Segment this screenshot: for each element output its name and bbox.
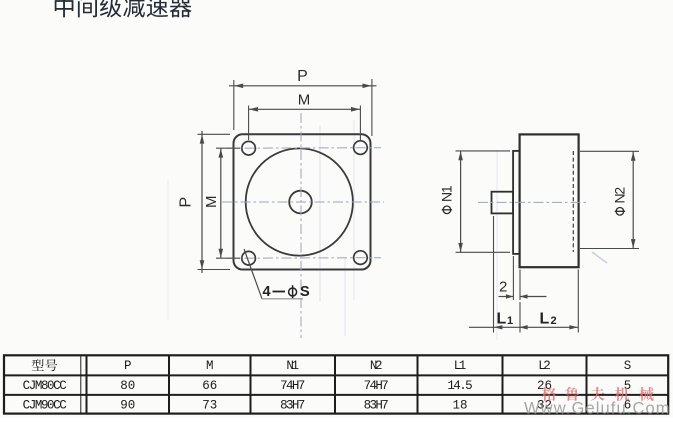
table column line x=335 bbox=[334, 355, 336, 413]
svg-text:73: 73 bbox=[202, 399, 217, 413]
svg-text:P: P bbox=[124, 359, 132, 373]
dim phiN1 line bbox=[460, 151, 462, 252]
svg-text:M: M bbox=[298, 92, 311, 109]
watermark char 械 bbox=[639, 387, 653, 401]
svg-text:2: 2 bbox=[499, 279, 507, 296]
svg-text:L: L bbox=[540, 311, 550, 328]
front view vertical centerline bbox=[300, 113, 302, 338]
table column ghost line bbox=[80, 355, 82, 413]
svg-text:4: 4 bbox=[263, 284, 271, 300]
title char 级 bbox=[100, 0, 122, 17]
watermark char 格 bbox=[542, 387, 556, 401]
dim P left extension lines bbox=[198, 133, 231, 135]
title char 减 bbox=[123, 0, 145, 17]
faint scan gridline bbox=[353, 120, 355, 300]
front view center bore circle bbox=[289, 191, 312, 214]
svg-text:Www.Gelufu.Com: Www.Gelufu.Com bbox=[524, 399, 670, 417]
svg-text:L: L bbox=[497, 311, 507, 328]
bolt row centerline top bbox=[226, 147, 381, 150]
dim M left line bbox=[220, 148, 222, 258]
dim L1 L2 line bbox=[469, 326, 578, 328]
table row separator 2 bbox=[4, 394, 668, 396]
dim P left line bbox=[201, 131, 203, 273]
title char 间 bbox=[78, 0, 97, 17]
svg-text:83H7: 83H7 bbox=[280, 399, 305, 413]
svg-text:5: 5 bbox=[624, 379, 632, 393]
dim P top line bbox=[229, 85, 377, 87]
svg-text:N1: N1 bbox=[286, 359, 299, 373]
svg-text:74H7: 74H7 bbox=[364, 379, 389, 393]
dim M left extension lines bbox=[216, 147, 240, 149]
svg-text:90: 90 bbox=[120, 399, 135, 413]
svg-text:N2: N2 bbox=[370, 359, 383, 373]
front view pilot circle bbox=[246, 148, 353, 255]
table column line x=250.5 bbox=[250, 355, 252, 413]
svg-text:83H7: 83H7 bbox=[364, 399, 389, 413]
side view flange plate bbox=[513, 151, 520, 254]
dim M top line bbox=[249, 108, 361, 110]
faint scan gridline bbox=[319, 125, 321, 302]
table header 型号 bbox=[32, 359, 44, 371]
dim phiN2 line bbox=[632, 151, 634, 248]
svg-text:N2: N2 bbox=[612, 187, 628, 204]
table column line x=417.5 bbox=[417, 355, 419, 413]
faint scan gridline bbox=[167, 180, 169, 320]
dim L1 L2 extension lines bbox=[493, 216, 495, 333]
table outer border bbox=[4, 355, 668, 413]
faint scan gridline bbox=[344, 258, 346, 336]
dim phiN2 label bbox=[612, 187, 628, 216]
title char 中 bbox=[55, 0, 74, 17]
side view horizontal centerline bbox=[478, 201, 589, 203]
side view body rectangle bbox=[520, 134, 579, 267]
leader line 4-phiS bbox=[244, 249, 262, 299]
title char 速 bbox=[147, 0, 168, 17]
svg-text:80: 80 bbox=[120, 379, 135, 393]
bolt hole top-right bbox=[354, 141, 368, 155]
bolt row centerline bottom bbox=[226, 257, 381, 260]
scan crease diagonal bbox=[592, 252, 607, 263]
bolt hole top-left bbox=[242, 141, 256, 155]
dim phiN1 label bbox=[439, 185, 455, 214]
dim 2 extension lines bbox=[512, 256, 514, 300]
svg-text:14.5: 14.5 bbox=[447, 379, 472, 393]
bolt hole bottom-left bbox=[242, 251, 256, 265]
side view shaft stub bbox=[492, 192, 514, 214]
svg-text:1: 1 bbox=[507, 315, 513, 327]
front view horizontal centerline bbox=[222, 201, 384, 203]
svg-text:L1: L1 bbox=[454, 359, 467, 373]
bolt hole bottom-right bbox=[354, 251, 368, 265]
svg-text:M: M bbox=[206, 359, 214, 373]
phi symbol of 4-phiS bbox=[289, 288, 297, 296]
svg-text:M: M bbox=[203, 196, 220, 209]
table row separator 1 bbox=[4, 374, 668, 376]
svg-text:66: 66 bbox=[202, 379, 217, 393]
svg-text:P: P bbox=[178, 197, 195, 208]
leader underline 4-phiS bbox=[262, 298, 304, 300]
svg-text:CJM80CC: CJM80CC bbox=[23, 379, 67, 393]
svg-text:2: 2 bbox=[551, 315, 557, 327]
table column line x=86.5 bbox=[86, 355, 88, 413]
svg-text:CJM90CC: CJM90CC bbox=[23, 399, 67, 413]
watermark char 机 bbox=[615, 387, 629, 401]
table column line x=586.5 bbox=[586, 355, 588, 413]
dim phiN1 extension lines bbox=[456, 150, 511, 152]
title char 器 bbox=[170, 0, 192, 17]
side view hidden bore dashed line bbox=[572, 151, 574, 252]
svg-text:L2: L2 bbox=[538, 359, 551, 373]
table column line x=502.5 bbox=[502, 355, 504, 413]
table column line x=169 bbox=[168, 355, 170, 413]
svg-text:18: 18 bbox=[452, 399, 467, 413]
faint scan gridline bbox=[496, 150, 498, 340]
svg-text:N1: N1 bbox=[439, 185, 455, 202]
front view flange square outline bbox=[234, 134, 371, 269]
dim 2 line and arrows bbox=[499, 296, 514, 298]
watermark char 夫 bbox=[590, 387, 604, 401]
svg-text:S: S bbox=[624, 359, 632, 373]
svg-text:S: S bbox=[300, 284, 310, 300]
watermark char 鲁 bbox=[565, 387, 579, 401]
svg-text:74H7: 74H7 bbox=[280, 379, 305, 393]
dim M top extension lines bbox=[248, 106, 250, 141]
dim phiN2 extension lines bbox=[580, 150, 639, 152]
svg-text:P: P bbox=[297, 68, 308, 85]
dim P top extension lines bbox=[233, 80, 235, 130]
